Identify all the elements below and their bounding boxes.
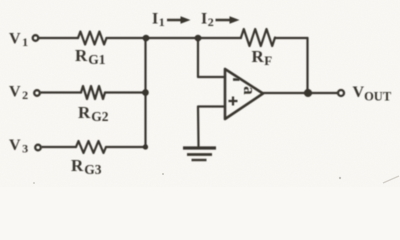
resistor RG2 — [81, 86, 105, 99]
junction output node — [304, 89, 312, 97]
op-amp minus sign — [233, 78, 240, 81]
resistor RF — [241, 29, 275, 46]
wire node B to RF (current I2 path) — [198, 37, 241, 39]
arrow current I2 — [216, 19, 231, 22]
arrow current I1 — [167, 19, 181, 22]
terminal V3 — [35, 145, 41, 151]
paper background — [0, 0, 400, 187]
ground symbol — [183, 148, 216, 160]
resistor RG3 — [76, 141, 106, 153]
wire non-inverting input to ground — [198, 107, 225, 147]
wire summing bus vertical — [144, 38, 146, 147]
wire node A to node B (current I1 path) — [146, 37, 198, 39]
wire RF to feedback corner — [275, 37, 308, 39]
wire RG2 to bus junction — [105, 91, 146, 93]
terminal V2 — [34, 90, 40, 96]
junction node A — [143, 35, 150, 42]
wire node B to inverting input — [198, 38, 225, 77]
junction node B — [195, 35, 202, 42]
wire V2 input to RG2 — [41, 91, 81, 93]
wire RG3 to bus corner — [106, 146, 146, 148]
resistor RG1 — [78, 32, 107, 45]
svg-text:a: a — [240, 86, 259, 95]
wire V3 input to RG3 — [42, 146, 76, 148]
wire V1 input to RG1 — [39, 37, 78, 39]
wire op-amp output to VOUT terminal — [263, 92, 337, 94]
wire RG1 to node A — [107, 37, 147, 39]
op-amp U1 triangle — [225, 69, 263, 119]
junction bus row2 — [142, 89, 149, 96]
junction bus row3 corner — [143, 144, 148, 149]
terminal V1 — [33, 35, 39, 41]
op-amp plus sign — [229, 97, 238, 106]
wire feedback vertical to output node — [306, 38, 308, 93]
terminal VOUT — [338, 90, 344, 96]
